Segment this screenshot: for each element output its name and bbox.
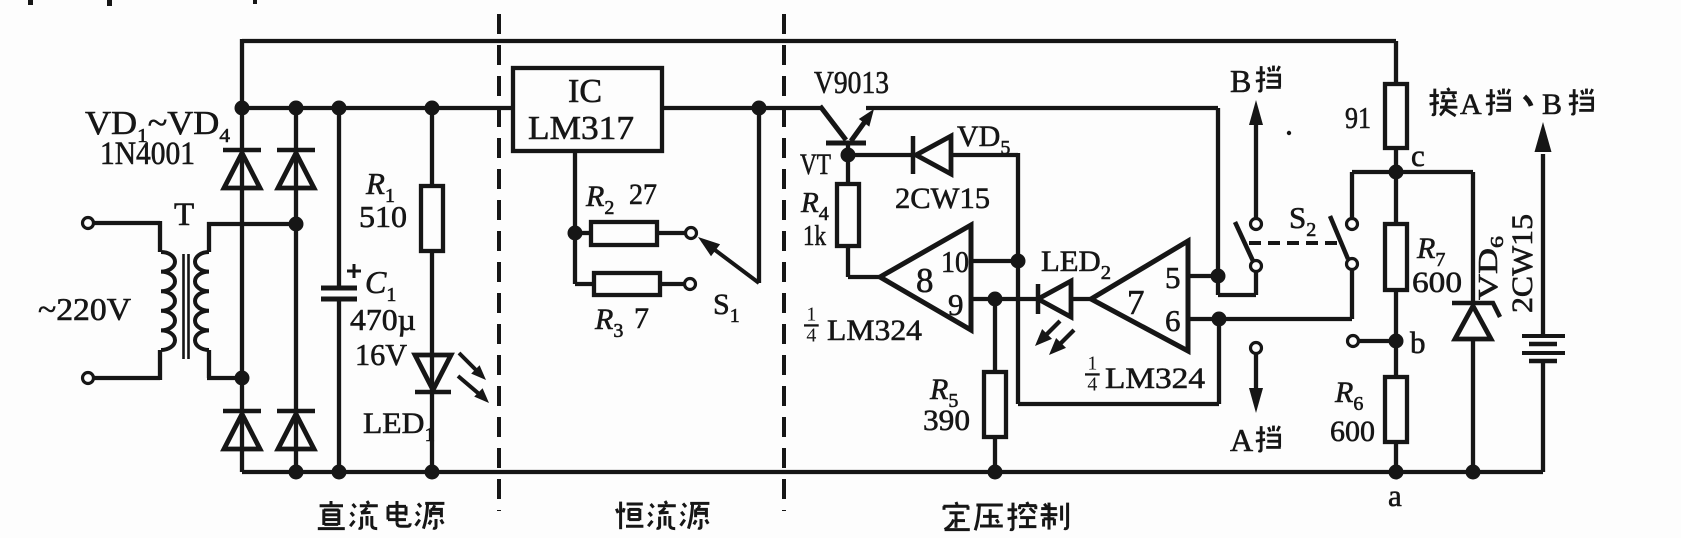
svg-text:470µ: 470µ: [350, 302, 416, 337]
svg-text:LM317: LM317: [528, 110, 634, 147]
svg-text:a: a: [1388, 478, 1402, 513]
svg-text:2CW15: 2CW15: [895, 182, 990, 215]
svg-text:c: c: [1411, 138, 1425, 173]
svg-text:T: T: [174, 197, 194, 233]
svg-text:~220V: ~220V: [38, 291, 131, 327]
svg-text:1: 1: [806, 304, 816, 326]
svg-text:390: 390: [923, 404, 970, 437]
svg-text:8: 8: [916, 261, 934, 300]
svg-text:7: 7: [1127, 283, 1145, 322]
svg-text:B: B: [1542, 88, 1562, 121]
svg-text:1k: 1k: [803, 220, 826, 252]
svg-text:A: A: [1460, 88, 1482, 121]
svg-text:6: 6: [1165, 303, 1181, 338]
svg-text:B: B: [1230, 63, 1251, 99]
svg-text:510: 510: [359, 199, 407, 234]
svg-text:1: 1: [1087, 353, 1097, 375]
svg-text:7: 7: [634, 302, 649, 335]
svg-text:600: 600: [1330, 415, 1375, 448]
svg-text:IC: IC: [568, 73, 602, 110]
svg-text:16V: 16V: [355, 337, 408, 372]
svg-text:VT: VT: [800, 148, 831, 181]
svg-text:27: 27: [629, 178, 657, 211]
svg-text:4: 4: [806, 325, 816, 347]
svg-text:5: 5: [1165, 260, 1181, 295]
svg-text:LM324: LM324: [1105, 362, 1205, 395]
svg-text:9: 9: [948, 287, 964, 322]
svg-text:LM324: LM324: [827, 314, 922, 347]
svg-text:1N4001: 1N4001: [100, 136, 195, 172]
svg-text:4: 4: [1087, 374, 1097, 396]
svg-text:b: b: [1410, 325, 1426, 360]
svg-text:2CW15: 2CW15: [1506, 214, 1539, 313]
svg-text:600: 600: [1412, 266, 1462, 299]
svg-text:V9013: V9013: [814, 64, 889, 100]
svg-text:91: 91: [1345, 100, 1371, 135]
svg-text:10: 10: [941, 244, 969, 279]
svg-text:A: A: [1230, 422, 1253, 458]
